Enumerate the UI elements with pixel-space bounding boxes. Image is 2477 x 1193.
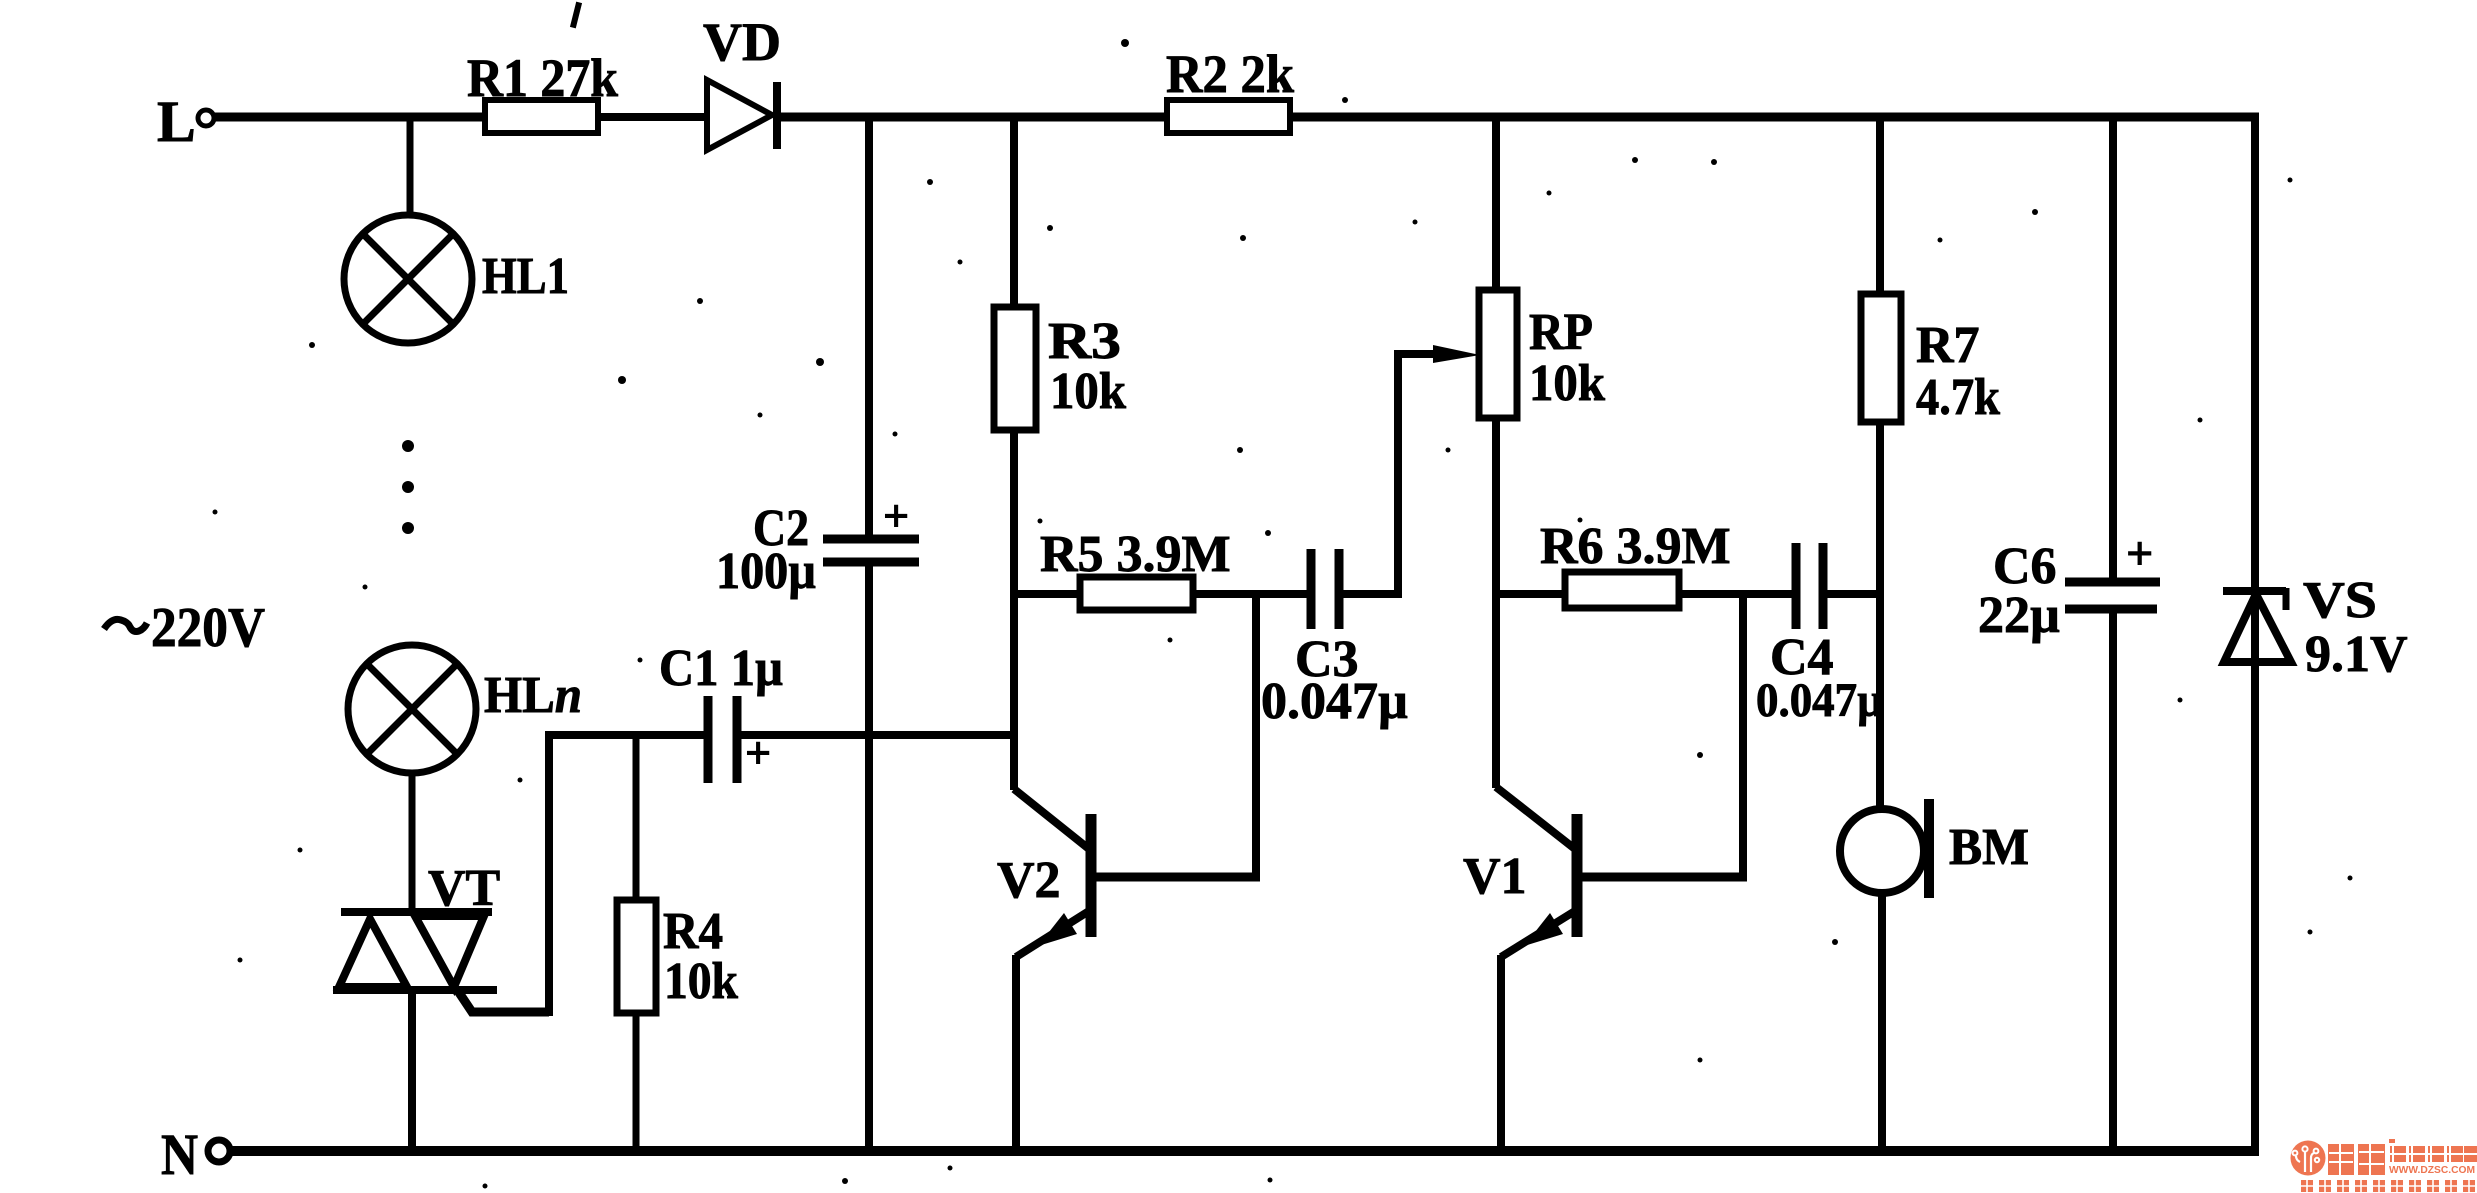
svg-text:10k: 10k [1050, 363, 1126, 420]
label C6 22u [1978, 587, 2060, 644]
label N [161, 1122, 198, 1187]
svg-text:VS: VS [2303, 572, 2377, 629]
wire R6 to C4 [1679, 590, 1796, 598]
label VS 9.1V [2305, 626, 2408, 683]
label R2 2k [1166, 44, 1294, 104]
label V1 [1463, 848, 1527, 905]
label R5 3.9M [1040, 526, 1231, 583]
capacitor C1 [708, 696, 737, 783]
wire V2 base to riser [1091, 873, 1260, 882]
label C2 plus [883, 490, 909, 541]
wire R5 to C3 [1193, 590, 1311, 598]
wire R3 to V2 collector [1010, 430, 1018, 790]
node junction HL1 column on top rail [407, 117, 414, 217]
wire V1 base to riser [1577, 873, 1747, 882]
potentiometer RP [1479, 290, 1517, 418]
label C2 100u [716, 543, 816, 600]
svg-text:L: L [157, 89, 196, 154]
wire L to R1 (top rail) [213, 113, 487, 122]
label HL1 [482, 248, 569, 305]
label R3 10k [1050, 363, 1126, 420]
wire R4 to N rail [633, 1013, 640, 1152]
wire R7 to BM [1876, 422, 1884, 812]
label C4 0.047u [1756, 674, 1883, 727]
svg-text:+: + [2126, 527, 2153, 580]
watermark url text [2389, 1165, 2475, 1176]
svg-text:HLn: HLn [484, 667, 582, 724]
svg-text:V2: V2 [997, 852, 1061, 909]
microphone BM [1840, 799, 1929, 898]
label C2 [753, 500, 809, 557]
label VS [2303, 572, 2377, 629]
zener diode VS [2223, 588, 2291, 662]
svg-text:VT: VT [428, 860, 500, 917]
wire N rail (bottom) [231, 1146, 2259, 1156]
wire R1 to VD [596, 113, 709, 121]
label V2 [997, 852, 1061, 909]
label C3 [1295, 631, 1359, 688]
wire gate riser to C1 [545, 731, 708, 739]
svg-text:VD: VD [703, 12, 781, 72]
wire R5 row from R3 column [1014, 590, 1082, 598]
wire C2 to N rail [865, 562, 873, 1152]
svg-text:10k: 10k [1529, 355, 1605, 412]
resistor R3 [994, 307, 1036, 430]
svg-text:4.7k: 4.7k [1916, 369, 2000, 426]
wire V2 emitter to N rail [1012, 955, 1020, 1152]
svg-text:HL1: HL1 [482, 248, 569, 305]
diode VD [707, 80, 777, 150]
terminal N [208, 1140, 230, 1162]
wire VT to N rail [408, 990, 416, 1152]
watermark title blocks (Chinese) [2328, 1139, 2477, 1175]
wire HLn to VT [409, 771, 416, 914]
watermark logo circle [2291, 1141, 2326, 1176]
capacitor C4 [1796, 543, 1823, 629]
label C1 1u [659, 640, 783, 697]
triac VT [333, 912, 497, 990]
wire R4 top stub [633, 735, 640, 903]
label R7 4.7k [1916, 369, 2000, 426]
wire VS column (right edge) [2251, 113, 2259, 1151]
label C1 plus [745, 727, 771, 778]
transistor V1 [1496, 787, 1577, 957]
wire R6 row from RP column [1496, 590, 1567, 598]
label R4 10k [664, 953, 738, 1010]
label VT [428, 860, 500, 917]
node junction V2 base riser [1252, 594, 1260, 880]
capacitor C3 [1311, 549, 1339, 629]
wire C2 riser from top rail [865, 117, 873, 540]
label C4 [1770, 629, 1834, 686]
svg-text:R4: R4 [663, 903, 723, 960]
svg-text:RP: RP [1529, 304, 1593, 361]
svg-text:22µ: 22µ [1978, 587, 2060, 644]
RP wiper arrow [1394, 345, 1480, 363]
svg-text:0.047µ: 0.047µ [1261, 673, 1408, 730]
label R6 3.9M [1540, 518, 1731, 575]
svg-text:100µ: 100µ [716, 543, 816, 600]
resistor R6 [1565, 572, 1679, 608]
svg-text:C1 1µ: C1 1µ [659, 640, 783, 697]
transistor V2 [1014, 789, 1091, 957]
label BM [1949, 819, 2029, 876]
wire BM to N rail [1878, 892, 1886, 1152]
wire VT gate to riser [458, 731, 549, 1016]
svg-text:R6 3.9M: R6 3.9M [1540, 518, 1731, 575]
label C3 0.047u [1261, 673, 1408, 730]
lamp HLn [348, 645, 476, 773]
svg-text:R2 2k: R2 2k [1166, 44, 1294, 104]
ellipsis dots (more lamps) [402, 440, 414, 534]
svg-text:R3: R3 [1048, 313, 1121, 370]
terminal L [198, 110, 214, 126]
label C6 plus [2126, 527, 2153, 580]
label L [157, 89, 196, 154]
svg-text:N: N [161, 1122, 198, 1187]
label ~220V [104, 597, 265, 659]
label R1 27k [467, 48, 618, 108]
resistor R1 [485, 100, 598, 133]
svg-text:WWW.DZSC.COM: WWW.DZSC.COM [2389, 1165, 2475, 1176]
wire VD to R2 (top rail) [777, 113, 1169, 122]
label HLn [484, 667, 582, 724]
svg-text:+: + [883, 490, 909, 541]
svg-text:BM: BM [1949, 819, 2029, 876]
label VD [703, 12, 781, 72]
wire C3 to RP wiper riser [1339, 353, 1398, 598]
node junction V1 base riser [1739, 594, 1747, 880]
resistor R4 [617, 900, 656, 1013]
svg-text:R7: R7 [1916, 317, 1980, 374]
resistor R2 [1167, 100, 1290, 133]
svg-text:10k: 10k [664, 953, 738, 1010]
label RP [1529, 304, 1593, 361]
svg-text:R5 3.9M: R5 3.9M [1040, 526, 1231, 583]
wire R2 to right corner (top rail) [1288, 113, 2259, 122]
wire C1 to V2 collector column [737, 731, 1018, 739]
wire R3 riser from top rail [1010, 117, 1018, 310]
svg-text:220V: 220V [151, 597, 265, 659]
svg-text:R1 27k: R1 27k [467, 48, 618, 108]
resistor R5 [1080, 577, 1193, 610]
label R3 [1048, 313, 1121, 370]
label R7 [1916, 317, 1980, 374]
label RP 10k [1529, 355, 1605, 412]
svg-text:9.1V: 9.1V [2305, 626, 2408, 683]
svg-text:0.047µ: 0.047µ [1756, 674, 1883, 727]
wire C6 to N rail [2109, 609, 2117, 1152]
wire R7 riser from top rail [1876, 117, 1884, 296]
capacitor C6 [2065, 582, 2160, 609]
wire RP riser from top rail [1492, 117, 1500, 292]
watermark slogan blocks [2301, 1180, 2475, 1192]
wire RP to V1 collector [1492, 418, 1500, 788]
wire C6 riser from top rail [2109, 117, 2117, 583]
svg-text:V1: V1 [1463, 848, 1527, 905]
label C6 [1993, 538, 2057, 595]
label R4 [663, 903, 723, 960]
wire V1 emitter to N rail [1497, 955, 1505, 1152]
capacitor C2 [823, 539, 919, 562]
wire C4 to R7 column [1823, 590, 1884, 598]
lamp HL1 [344, 215, 472, 343]
resistor R7 [1861, 294, 1901, 422]
